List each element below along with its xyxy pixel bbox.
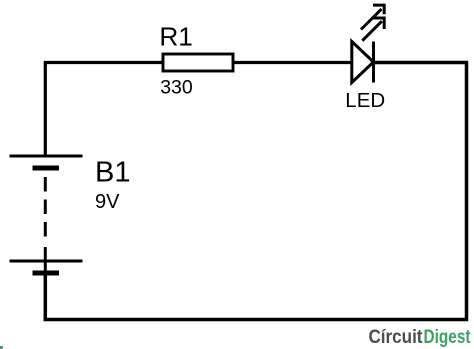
svg-text:B1: B1: [95, 157, 130, 189]
svg-text:330: 330: [160, 76, 193, 98]
svg-text:Digest: Digest: [424, 327, 472, 348]
svg-text:9V: 9V: [95, 191, 120, 213]
svg-text:R1: R1: [159, 21, 192, 51]
svg-text:LED: LED: [345, 89, 385, 112]
svg-text:Círcuit: Círcuit: [369, 327, 424, 348]
